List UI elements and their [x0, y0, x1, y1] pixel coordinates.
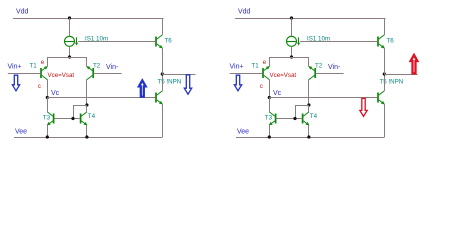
junction mirror base (left) — [71, 117, 74, 120]
wire Vin+ stub (left) — [8, 73, 41, 75]
transistor T5 (left) — [156, 91, 163, 105]
junction mirror base (right) — [293, 117, 296, 120]
svg-text:Vee: Vee — [237, 128, 249, 135]
svg-text:Vce=Vsat: Vce=Vsat — [48, 72, 75, 79]
junction T4 emitter / Vee (right) — [307, 135, 310, 138]
wire diode jog horizontal (left) — [73, 105, 87, 107]
arrow mid down red (right) — [360, 98, 367, 116]
junction output node (right) — [383, 72, 386, 75]
wire T2 collector to T4 collector (right) — [308, 105, 310, 112]
junction T2/T4 collector (right) — [307, 103, 310, 106]
junction Vdd rail / IS1 (right) — [290, 16, 293, 19]
svg-text:c: c — [38, 83, 41, 90]
svg-text:Vin+: Vin+ — [8, 63, 22, 70]
wire Vdd rail (right) — [235, 18, 386, 20]
junction T3 emitter / Vee (left) — [46, 135, 49, 138]
wire T6 collector up (left) — [162, 18, 164, 35]
wire T5 collector up (left) — [162, 74, 164, 91]
transistor T2 (left) — [86, 66, 93, 80]
arrow output up red (right) — [411, 55, 418, 73]
wire diode jog vertical (left) — [73, 105, 75, 119]
svg-text:Vin-: Vin- — [328, 64, 341, 71]
junction T2/T4 collector (left) — [85, 103, 88, 106]
svg-text:Vc: Vc — [273, 90, 282, 97]
wire T3 collector up (left) — [47, 98, 49, 112]
svg-text:Vin+: Vin+ — [230, 63, 244, 70]
svg-text:T3: T3 — [265, 114, 273, 121]
junction T3 emitter / Vee (right) — [268, 135, 271, 138]
svg-text:Vdd: Vdd — [238, 9, 251, 16]
wire T5 collector up (right) — [384, 74, 386, 91]
svg-text:T6: T6 — [387, 37, 395, 44]
wire T3 emitter (left) — [47, 125, 49, 137]
wire T2 collector down (right) — [308, 79, 310, 105]
junction Vc node (right) — [268, 96, 271, 99]
svg-text:e: e — [41, 59, 45, 66]
svg-text:Vee: Vee — [15, 128, 27, 135]
wire Vdd to IS1 (right) — [291, 18, 293, 36]
wire T1 emitter lead (left) — [47, 57, 49, 67]
wire output stub (left) — [162, 74, 195, 76]
transistor T3 (right) — [269, 112, 276, 126]
arrow output down blue (left) — [184, 75, 191, 94]
transistor T6 (right) — [378, 35, 385, 49]
transistor T6 (left) — [156, 35, 163, 49]
junction tail node (left) — [68, 55, 71, 58]
svg-text:T1: T1 — [252, 63, 260, 70]
wire T6 emitter to output (left) — [162, 48, 164, 74]
arrow mid up blue (left) — [139, 80, 146, 96]
wire Vin+ stub (right) — [230, 73, 263, 75]
wire emitter rail T1-T2 (left) — [48, 57, 88, 59]
wire T2 emitter lead (right) — [308, 57, 310, 67]
wire T4 emitter (right) — [308, 125, 310, 137]
arrow Vin+ input down (left) — [12, 75, 19, 91]
junction Vdd rail / IS1 (left) — [68, 16, 71, 19]
wire Vc to T5 base (left) — [47, 97, 155, 99]
svg-text:Vce=Vsat: Vce=Vsat — [270, 72, 297, 79]
wire T5 emitter (right) — [384, 104, 386, 137]
svg-text:Vin-: Vin- — [106, 64, 119, 71]
wire T2 emitter lead (left) — [86, 57, 88, 67]
wire diode jog vertical (right) — [295, 105, 297, 119]
transistor T4 (left) — [81, 112, 88, 126]
wire IS1 to tail node (left) — [69, 46, 71, 57]
transistor T5 (right) — [378, 91, 385, 105]
wire T2 collector down (left) — [86, 79, 88, 105]
svg-text:c: c — [260, 83, 263, 90]
svg-text:T2: T2 — [93, 63, 101, 70]
transistor T3 (left) — [47, 112, 54, 126]
wire mirror bases (left) — [55, 118, 80, 120]
wire mirror bases (right) — [277, 118, 302, 120]
junction Vc node (left) — [46, 96, 49, 99]
junction T4 emitter / Vee (left) — [85, 135, 88, 138]
wire Vc to T5 base (right) — [269, 97, 377, 99]
wire T5 emitter (left) — [162, 104, 164, 137]
svg-text:T5 !NPN: T5 !NPN — [380, 79, 404, 86]
transistor T1 (right) — [263, 66, 270, 80]
junction output node (left) — [161, 72, 164, 75]
wire emitter rail T1-T2 (right) — [270, 57, 310, 59]
wire Vin- stub (right) — [316, 73, 344, 75]
svg-text:T5 !NPN: T5 !NPN — [158, 79, 182, 86]
svg-text:T4: T4 — [88, 113, 96, 120]
wire T6 collector up (right) — [384, 18, 386, 35]
current source IS1 (left) — [65, 36, 75, 46]
junction tail node (right) — [290, 55, 293, 58]
wire T4 emitter (left) — [86, 125, 88, 137]
svg-text:T2: T2 — [315, 63, 323, 70]
transistor T2 (right) — [308, 66, 315, 80]
svg-text:Vc: Vc — [51, 90, 60, 97]
svg-text:T6: T6 — [165, 37, 173, 44]
wire T1 emitter lead (right) — [269, 57, 271, 67]
wire diode jog horizontal (right) — [295, 105, 309, 107]
wire Vee rail (left) — [14, 137, 163, 139]
wire T3 collector up (right) — [269, 98, 271, 112]
wire T6 emitter to output (right) — [384, 48, 386, 74]
wire T3 emitter (right) — [269, 125, 271, 137]
wire T2 collector to T4 collector (left) — [86, 105, 88, 112]
wire Vdd to IS1 (left) — [69, 18, 71, 36]
wire IS1 to tail node (right) — [291, 46, 293, 57]
transistor T1 (left) — [41, 66, 48, 80]
wire Vin- stub (left) — [94, 73, 122, 75]
wire output stub (right) — [384, 74, 417, 76]
svg-text:T3: T3 — [43, 114, 51, 121]
wire IS1 to T6 base (right) — [300, 41, 377, 43]
wire T1 collector down (left) — [47, 79, 49, 97]
svg-text:Vdd: Vdd — [16, 9, 29, 16]
wire T1 collector down (right) — [269, 79, 271, 97]
arrow Vin+ input down (right) — [234, 75, 241, 91]
wire IS1 to T6 base (left) — [78, 41, 155, 43]
wire Vee rail (right) — [236, 137, 385, 139]
svg-text:e: e — [263, 59, 267, 66]
current source IS1 (right) — [287, 36, 297, 46]
wire Vdd rail (left) — [13, 18, 164, 20]
svg-text:T1: T1 — [30, 63, 38, 70]
transistor T4 (right) — [303, 112, 310, 126]
svg-text:T4: T4 — [310, 113, 318, 120]
